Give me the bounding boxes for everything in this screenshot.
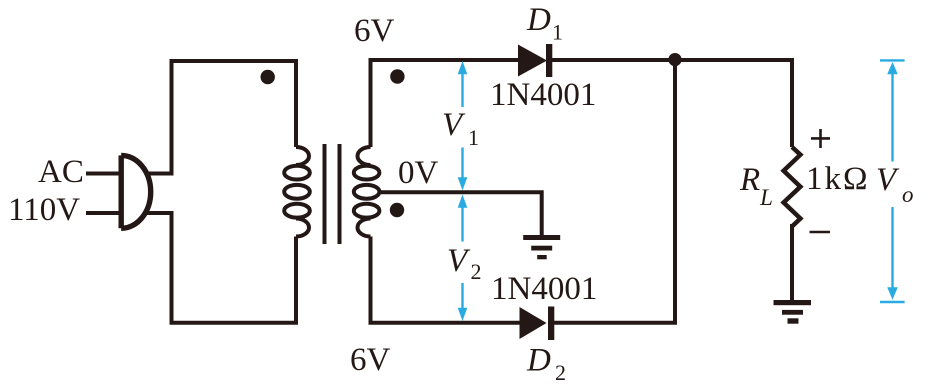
secondary polarity dot top [390,69,404,83]
wire D2 cathode to output node [554,60,675,325]
svg-text:110V: 110V [8,192,80,228]
arrow V1 line [461,73,463,178]
transformer core [325,144,340,244]
resistor RL [784,147,801,227]
wire RL to load ground [790,224,794,300]
arrow V2 line [461,207,463,308]
center tap wire [378,190,542,235]
ground load [774,300,812,305]
svg-text:1kΩ: 1kΩ [806,161,870,197]
AC plug source [86,155,151,228]
plus sign [811,129,830,148]
secondary polarity dot bottom [390,203,404,217]
arrow Vo heads [887,62,898,74]
svg-text:1: 1 [468,125,479,150]
wire output node to RL top [675,58,792,147]
wire D1 cathode to output node [552,58,675,62]
node output junction dot [668,53,681,66]
svg-text:6V: 6V [350,342,391,378]
primary polarity dot [261,70,275,84]
svg-text:V: V [447,243,471,279]
svg-text:0V: 0V [398,155,439,191]
diode D1 [518,45,547,77]
diode D2 [520,307,547,339]
arrow V1 heads [458,61,468,74]
svg-text:D: D [526,2,551,38]
arrow V2 heads [458,195,468,208]
svg-text:2: 2 [555,360,566,385]
arrow Vo line [880,60,905,302]
transformer T1 secondary winding [354,147,380,237]
svg-text:V: V [876,162,900,198]
svg-text:RL: RL [739,162,773,210]
transformer T1 primary winding [284,147,310,237]
svg-text:o: o [902,182,914,207]
svg-text:AC: AC [38,154,84,190]
svg-text:D: D [526,343,551,379]
svg-text:6V: 6V [354,13,395,49]
wire secondary bottom to D2 anode [369,237,520,323]
wire secondary top to D1 anode [369,60,519,147]
svg-text:1N4001: 1N4001 [491,271,597,307]
wire plug to primary top [146,59,296,176]
svg-text:2: 2 [471,259,482,284]
ground center tap [523,235,560,240]
minus sign [810,231,831,234]
svg-text:V: V [442,107,466,143]
svg-text:1: 1 [552,20,563,45]
wire plug to primary bottom [146,211,296,325]
svg-text:1N4001: 1N4001 [490,77,596,113]
